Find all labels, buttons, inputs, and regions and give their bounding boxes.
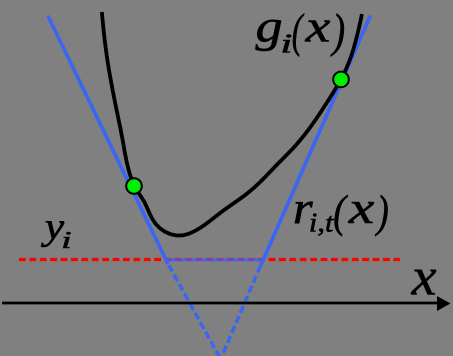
svg-text:x: x — [411, 247, 438, 307]
svg-text:i: i — [61, 227, 71, 254]
svg-text:): ) — [375, 187, 389, 237]
svg-text:x: x — [348, 184, 375, 234]
svg-text:g: g — [256, 0, 283, 51]
svg-text:i: i — [280, 29, 292, 59]
svg-text:x: x — [305, 2, 331, 52]
svg-text:i,t: i,t — [309, 208, 335, 238]
svg-text:): ) — [330, 5, 345, 58]
